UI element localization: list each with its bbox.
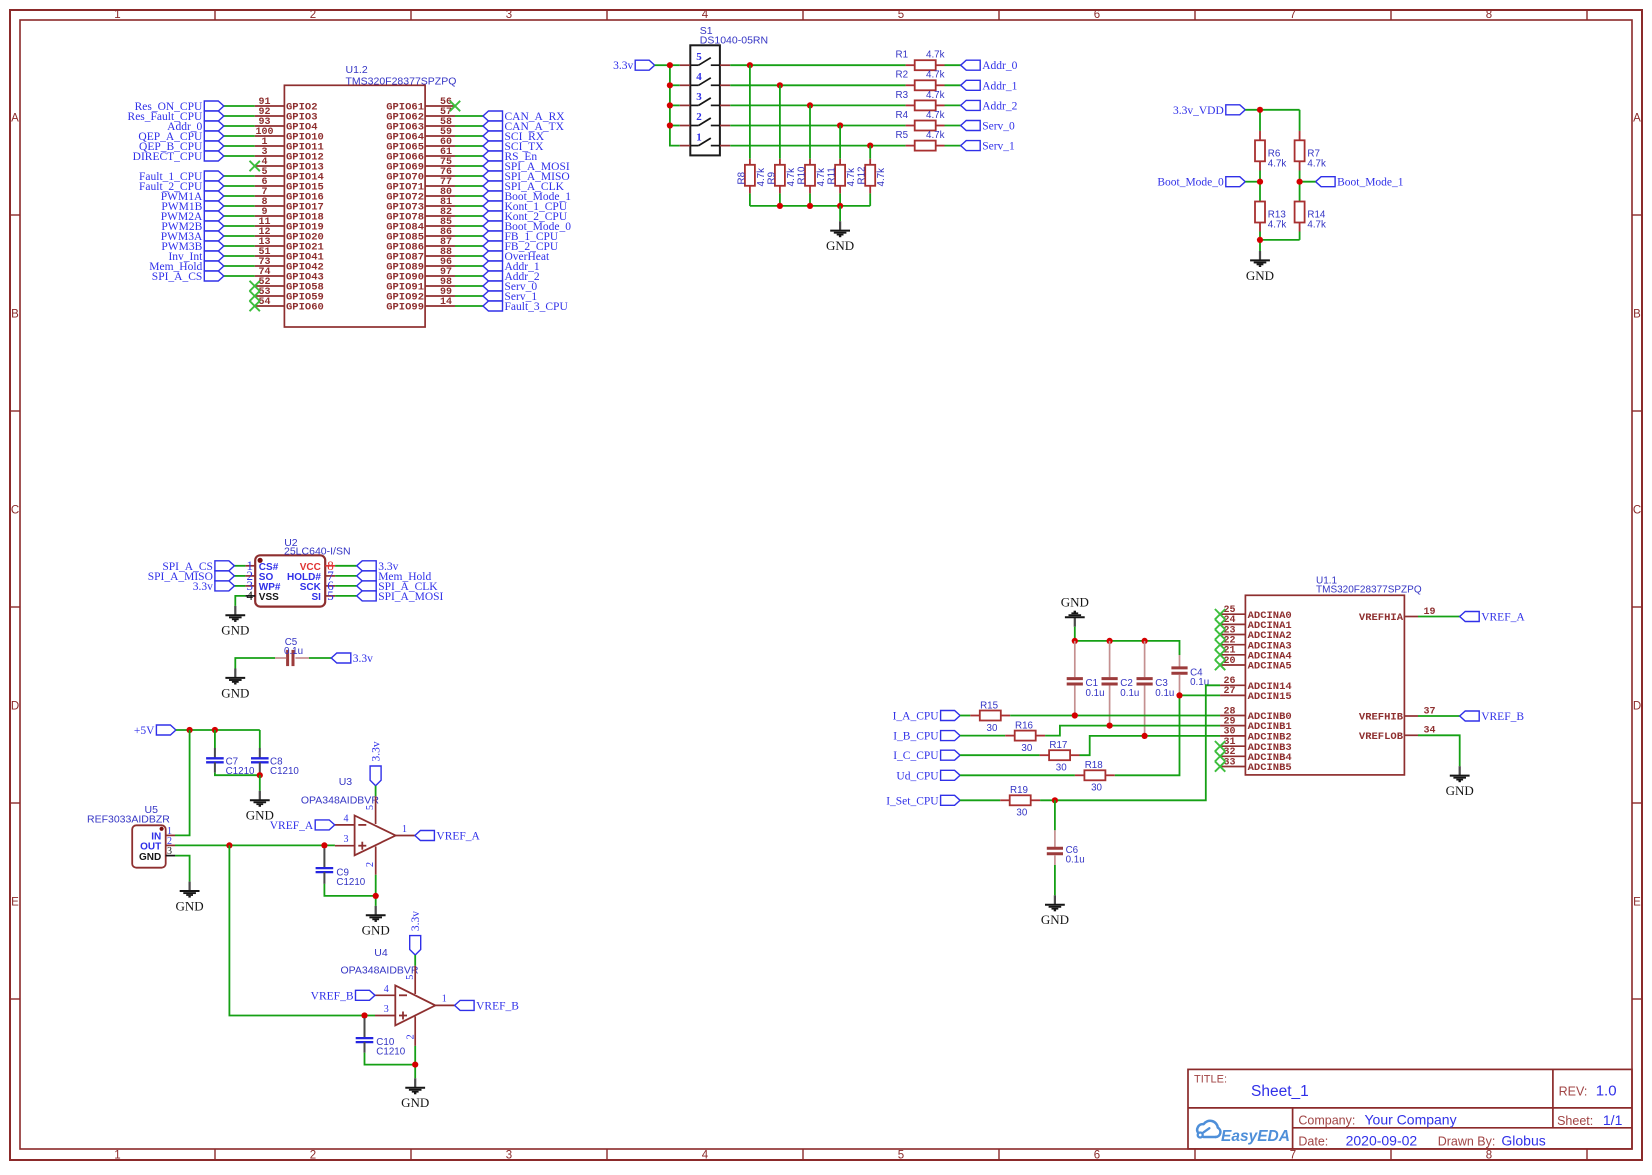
junction [1257, 237, 1263, 243]
net flag FB_1_CPU [483, 231, 503, 241]
svg-text:Sheet:: Sheet: [1557, 1114, 1593, 1128]
net flag SPI_A_MISO [215, 571, 235, 581]
junction [837, 122, 843, 128]
svg-text:VREFLOB: VREFLOB [1359, 731, 1404, 743]
svg-text:Your Company: Your Company [1365, 1111, 1457, 1127]
svg-text:3.3v: 3.3v [410, 911, 422, 931]
wire C5 to 3.3v [309, 657, 331, 659]
net flag I_B_CPU [941, 731, 961, 741]
net flag PWM2A [204, 211, 224, 221]
net flag RS_En [483, 151, 503, 161]
svg-text:B: B [1633, 309, 1641, 321]
wire R19 to ADCIN14 [1040, 685, 1220, 800]
svg-text:SPI_A_CS: SPI_A_CS [152, 271, 203, 283]
resistor R15 30 [970, 715, 980, 717]
net flag VREF_B output [455, 1000, 475, 1010]
svg-text:VREF_A: VREF_A [1481, 612, 1525, 624]
net flag Serv_1 [961, 141, 981, 151]
net flag Addr_2 [961, 100, 981, 110]
net flag SPI_A_CS [204, 271, 224, 281]
svg-text:U1.2: U1.2 [346, 64, 368, 76]
net flag Kont_1_CPU [483, 201, 503, 211]
wire S1 pos 1 to R5 [730, 145, 905, 147]
svg-text:4.7k: 4.7k [876, 168, 887, 187]
wire U2 VSS to ground [235, 596, 245, 606]
svg-text:R1: R1 [896, 50, 909, 61]
wire U1.2 pin 61 to RS_En [455, 155, 483, 157]
svg-text:GND: GND [1246, 268, 1274, 283]
capacitor C3 0.1u [1144, 641, 1146, 677]
wire U1.2 pin 59 to SCI_RX [455, 135, 483, 137]
net flag Ud_CPU [941, 770, 961, 780]
svg-text:30: 30 [1021, 743, 1032, 754]
net flag PWM2B [204, 221, 224, 231]
svg-text:A: A [1633, 113, 1641, 125]
title block [1188, 1069, 1632, 1149]
svg-text:Date:: Date: [1298, 1135, 1328, 1149]
net flag PWM1A [204, 191, 224, 201]
resistor R13 4.7k [1255, 202, 1265, 223]
net flag FB_2_CPU [483, 241, 503, 251]
svg-text:3.3v: 3.3v [371, 741, 383, 761]
wire C7 to C8 bottom rail [215, 773, 260, 776]
wire S1 pos 5 to R1 [730, 64, 905, 66]
net flag SPI_A_CLK [483, 181, 503, 191]
capacitor C7 C1210 [214, 730, 216, 748]
power flag 3.3v_VDD [1226, 105, 1246, 115]
junction [667, 122, 673, 128]
svg-text:1.0: 1.0 [1596, 1083, 1617, 1100]
svg-text:3.3v: 3.3v [353, 653, 373, 665]
svg-text:I_B_CPU: I_B_CPU [893, 731, 939, 743]
wire R11 to ground rail [839, 193, 841, 206]
ground [1054, 895, 1056, 904]
svg-text:4.7k: 4.7k [926, 90, 945, 101]
svg-text:ADCINB5: ADCINB5 [1248, 762, 1292, 774]
svg-text:3: 3 [344, 834, 349, 845]
svg-text:0.1u: 0.1u [1066, 855, 1085, 866]
junction [1107, 723, 1113, 729]
wire to pulldown R9 [779, 85, 781, 159]
op-amp U3 OPA348AIDBVR [355, 816, 396, 856]
wire U2 to Mem_Hold [335, 575, 357, 577]
power flag 3.3v above U4 [410, 936, 421, 955]
wire R10 to ground rail [809, 193, 811, 206]
wire PWM2A to U1.2 pin 9 [224, 215, 255, 217]
svg-text:C1210: C1210 [270, 766, 299, 777]
wire U2 to SPI_A_MOSI [335, 595, 357, 597]
svg-text:4.7k: 4.7k [1307, 220, 1326, 231]
wire I_A_CPU to R15 [960, 715, 970, 717]
power flag 3.3v at C5 [331, 653, 351, 663]
svg-text:OPA348AIDBVR: OPA348AIDBVR [341, 964, 419, 976]
wire Fault_1_CPU to U1.2 pin 5 [224, 175, 255, 177]
wire U1.2 pin 14 to Fault_3_CPU [455, 305, 483, 307]
wire U1.2 pin 85 to Boot_Mode_0 [455, 225, 483, 227]
svg-text:30: 30 [1016, 808, 1027, 819]
svg-text:2: 2 [405, 1034, 416, 1039]
net flag Boot_Mode_0 [483, 221, 503, 231]
svg-text:5: 5 [327, 588, 334, 603]
resistor R16 30 [1005, 735, 1015, 737]
power flag 3.3v above U3 [370, 766, 381, 786]
net flag Addr_2 [483, 271, 503, 281]
wire I_B_CPU to R16 [960, 735, 1005, 737]
wire VREFHIB to VREF_B [1418, 715, 1460, 717]
ground [234, 606, 236, 615]
svg-text:6: 6 [1094, 1149, 1100, 1161]
resistor R11 4.7k [839, 159, 841, 165]
svg-text:C: C [1633, 505, 1641, 517]
svg-text:54: 54 [258, 297, 270, 308]
capacitor C5 0.1u [286, 650, 289, 666]
net flag SPI_A_MOSI [357, 591, 377, 601]
net flag DIRECT_CPU [204, 151, 224, 161]
svg-text:30: 30 [987, 723, 998, 734]
svg-text:R15: R15 [980, 700, 999, 711]
svg-text:27: 27 [1223, 686, 1235, 697]
ground above C1-C4 [1074, 617, 1076, 626]
svg-text:4.7k: 4.7k [846, 168, 857, 187]
ground [414, 1078, 416, 1087]
wire Res_Fault_CPU to U1.2 pin 92 [224, 115, 255, 117]
net flag Inv_Int [204, 251, 224, 261]
resistor R2 4.7k [906, 84, 915, 86]
wire cap top rail [1075, 641, 1180, 655]
svg-text:DIRECT_CPU: DIRECT_CPU [133, 151, 203, 163]
wire 3.3v to U3 pin 5 [375, 786, 377, 797]
svg-text:33: 33 [1223, 757, 1235, 768]
no-connect X U1.1 pin 20 [1215, 660, 1225, 670]
wire C9 to U3 pin 2 / ground [324, 884, 375, 896]
no-connect X U1.1 pin 33 [1215, 761, 1225, 771]
svg-text:REV:: REV: [1559, 1085, 1588, 1099]
wire I_C_CPU to R17 [960, 754, 1040, 756]
svg-text:Addr_0: Addr_0 [982, 60, 1017, 72]
svg-text:7: 7 [1290, 9, 1296, 21]
junction [1142, 733, 1148, 739]
svg-text:4.7k: 4.7k [756, 168, 767, 187]
svg-text:4: 4 [702, 1149, 709, 1161]
svg-text:Addr_1: Addr_1 [982, 80, 1017, 92]
svg-text:2020-09-02: 2020-09-02 [1346, 1133, 1418, 1149]
svg-text:GPIO60: GPIO60 [286, 302, 324, 314]
no-connect X U1.1 pin 24 [1215, 619, 1225, 629]
wire C10 to U4 pin 2 / ground [365, 1053, 416, 1065]
wire C5 to ground [235, 658, 275, 669]
wire to pulldown R10 [809, 105, 811, 158]
wire R3 to Addr_2 [945, 104, 961, 106]
svg-text:ADCIN15: ADCIN15 [1248, 691, 1292, 703]
svg-text:+5V: +5V [134, 725, 155, 737]
net flag Serv_0 [483, 281, 503, 291]
wire PWM2B to U1.2 pin 11 [224, 225, 255, 227]
junction [1072, 712, 1078, 718]
net flag Boot_Mode_1 [483, 191, 503, 201]
svg-text:ADCINA5: ADCINA5 [1248, 661, 1292, 673]
wire to ground under C8 [259, 775, 261, 791]
resistor R7 4.7k [1299, 131, 1301, 140]
junction [777, 82, 783, 88]
junction [777, 203, 783, 209]
junction [667, 62, 673, 68]
svg-text:EasyEDA: EasyEDA [1221, 1128, 1290, 1145]
net flag Serv_0 [961, 121, 981, 131]
resistor R14 4.7k [1295, 202, 1305, 223]
wire R16 to ADCINB1 [1045, 726, 1220, 736]
capacitor C2 0.1u [1109, 641, 1111, 677]
wire PWM3A to U1.2 pin 12 [224, 235, 255, 237]
wire PWM1A to U1.2 pin 7 [224, 195, 255, 197]
svg-text:4: 4 [696, 71, 702, 83]
svg-text:C1210: C1210 [376, 1047, 405, 1058]
wire U1.2 pin 80 to Boot_Mode_1 [455, 195, 483, 197]
wire 3.3v bus to S1 inputs [655, 64, 670, 66]
svg-text:3: 3 [167, 846, 172, 857]
junction [1297, 179, 1303, 185]
junction [257, 772, 263, 778]
svg-text:4.7k: 4.7k [926, 70, 945, 81]
wire PWM1B to U1.2 pin 8 [224, 205, 255, 207]
svg-text:3: 3 [506, 9, 512, 21]
wire SPI_A_CS to U2 [234, 565, 245, 567]
no-connect X U1.1 pin 21 [1215, 650, 1225, 660]
net flag VREF_B input [356, 990, 376, 1000]
net flag 3.3v [215, 581, 235, 591]
wire Boot_Mode_0 node [1245, 181, 1260, 183]
junction [361, 1012, 367, 1018]
svg-text:1: 1 [696, 131, 702, 143]
svg-text:D: D [11, 701, 19, 713]
svg-text:0.1u: 0.1u [284, 646, 303, 657]
wire +5V down to U5 IN [175, 730, 190, 835]
net flag VREF_B [1460, 711, 1480, 721]
svg-text:2: 2 [310, 1149, 316, 1161]
wire C6 to ground [1054, 865, 1056, 895]
svg-text:14: 14 [440, 297, 452, 308]
wire Inv_Int to U1.2 pin 51 [224, 255, 255, 257]
net flag 3.3v [357, 561, 377, 571]
svg-text:R11: R11 [827, 167, 838, 184]
net flag QEP_B_CPU [204, 141, 224, 151]
net flag VREF_A [1460, 612, 1480, 622]
ground [1259, 251, 1261, 260]
svg-text:0.1u: 0.1u [1155, 688, 1174, 699]
svg-text:4.7k: 4.7k [1268, 220, 1287, 231]
svg-text:4: 4 [247, 588, 254, 603]
ground [839, 206, 841, 221]
net flag I_A_CPU [941, 711, 961, 721]
DIP switch S1 DS1040-05RN [690, 45, 720, 155]
svg-text:R8: R8 [736, 171, 747, 184]
wire U1.2 pin 82 to Kont_2_CPU [455, 215, 483, 217]
wire R15 to ADCINB0 [1010, 715, 1220, 717]
resistor R4 4.7k [906, 125, 915, 127]
net flag Serv_1 [483, 291, 503, 301]
svg-text:GPIO99: GPIO99 [386, 302, 424, 314]
svg-text:4.7k: 4.7k [1268, 158, 1287, 169]
net flag VREF_A input [315, 820, 335, 830]
svg-text:REF3033AIDBZR: REF3033AIDBZR [87, 813, 170, 825]
svg-text:SPI_A_MOSI: SPI_A_MOSI [378, 591, 443, 603]
svg-text:1: 1 [114, 9, 120, 21]
wire Addr_0 to U1.2 pin 93 [224, 125, 255, 127]
IC U1.2 TMS320F28377SPZPQ [284, 85, 425, 327]
svg-text:3.3v: 3.3v [193, 581, 213, 593]
no-connect X U1.1 pin 23 [1215, 629, 1225, 639]
svg-text:5: 5 [898, 1149, 904, 1161]
wire S1 pos 4 to R2 [730, 84, 905, 86]
svg-text:GND: GND [1041, 912, 1069, 927]
net flag PWM1B [204, 201, 224, 211]
junction [321, 842, 327, 848]
svg-text:GND: GND [1061, 595, 1089, 610]
wire S1 pos 3 to R3 [730, 104, 905, 106]
wire DIRECT_CPU to U1.2 pin 3 [224, 155, 255, 157]
net flag SPI_A_CS [215, 561, 235, 571]
net flag Addr_1 [961, 80, 981, 90]
net flag Addr_0 [204, 121, 224, 131]
wire to pulldown R12 [869, 146, 871, 159]
IC U5 REF3033AIDBZR [132, 825, 166, 867]
svg-text:Sheet_1: Sheet_1 [1251, 1083, 1309, 1100]
svg-text:SI: SI [311, 592, 321, 603]
svg-text:U3: U3 [339, 776, 353, 788]
no-connect X U1.1 pin 22 [1215, 640, 1225, 650]
wire R8 to ground rail [749, 193, 751, 206]
resistor R10 4.7k [809, 159, 811, 165]
junction [187, 727, 193, 733]
svg-text:Boot_Mode_0: Boot_Mode_0 [1157, 177, 1224, 189]
wire R2 to Addr_1 [945, 84, 961, 86]
net flag SCI_RX [483, 131, 503, 141]
no-connect X U1.1 pin 25 [1215, 609, 1225, 619]
svg-text:4.7k: 4.7k [926, 110, 945, 121]
ground [234, 669, 236, 678]
net flag Boot_Mode_0 [1226, 177, 1246, 187]
wire to pulldown R11 [839, 126, 841, 159]
wire +5V rail [176, 729, 260, 731]
svg-text:Serv_0: Serv_0 [982, 121, 1015, 133]
net flag Fault_2_CPU [204, 181, 224, 191]
junction [667, 102, 673, 108]
svg-text:Fault_3_CPU: Fault_3_CPU [505, 301, 569, 313]
junction [1176, 692, 1182, 698]
wire U1.2 pin 99 to Serv_1 [455, 295, 483, 297]
net flag Kont_2_CPU [483, 211, 503, 221]
wire U1.2 pin 57 to CAN_A_RX [455, 115, 483, 117]
junction [667, 82, 673, 88]
net flag OverHeat [483, 251, 503, 261]
svg-text:VREF_B: VREF_B [311, 990, 354, 1002]
wire U1.2 pin 58 to CAN_A_TX [455, 125, 483, 127]
wire U1.2 pin 77 to SPI_A_CLK [455, 185, 483, 187]
svg-text:VREF_B: VREF_B [1481, 711, 1524, 723]
svg-text:DS1040-05RN: DS1040-05RN [700, 35, 768, 47]
svg-text:C: C [11, 505, 19, 517]
resistor R18 30 [1075, 774, 1085, 776]
wire to pulldown R8 [749, 65, 751, 159]
svg-text:5: 5 [696, 51, 702, 63]
resistor R6 4.7k [1259, 131, 1261, 140]
svg-text:3.3v: 3.3v [613, 60, 633, 72]
svg-text:U4: U4 [374, 947, 388, 959]
svg-text:VREF_A: VREF_A [270, 820, 314, 832]
junction [1072, 638, 1078, 644]
wire R1 to Addr_0 [945, 64, 961, 66]
svg-text:I_C_CPU: I_C_CPU [893, 750, 939, 762]
svg-text:4.7k: 4.7k [926, 50, 945, 61]
wire S1 pos 2 to R4 [730, 125, 905, 127]
svg-text:R18: R18 [1085, 760, 1104, 771]
svg-text:30: 30 [1091, 783, 1102, 794]
svg-text:R3: R3 [896, 90, 909, 101]
wire 3.3v_VDD to R6/R7 [1245, 109, 1299, 111]
svg-text:E: E [1633, 897, 1641, 909]
wire U1.2 pin 96 to Addr_1 [455, 265, 483, 267]
svg-text:2: 2 [696, 111, 702, 123]
wire U1.2 pin 76 to SPI_A_MISO [455, 175, 483, 177]
wire R17 to ADCINB2 [1080, 736, 1221, 755]
op-amp U4 OPA348AIDBVR [395, 985, 435, 1025]
resistor R5 4.7k [906, 145, 915, 147]
resistor R19 30 [1000, 799, 1010, 801]
svg-text:5: 5 [405, 975, 416, 980]
wire 3.3v to U4 pin 5 [414, 955, 416, 966]
svg-text:GND: GND [826, 238, 854, 253]
wire QEP_A_CPU to U1.2 pin 100 [224, 135, 255, 137]
svg-text:4.7k: 4.7k [816, 168, 827, 187]
resistor R3 4.7k [906, 104, 915, 106]
junction [837, 203, 843, 209]
svg-text:R10: R10 [797, 166, 808, 185]
capacitor C6 0.1u [1054, 800, 1056, 830]
capacitor C9 C1210 [323, 848, 325, 868]
no-connect X U1.2 pin 4 [250, 161, 260, 171]
IC U1.1 TMS320F28377SPZPQ [1245, 595, 1404, 775]
wire R9 to ground rail [779, 193, 781, 206]
power flag 3.3v at S1 [635, 60, 655, 70]
svg-text:GND: GND [401, 1095, 429, 1110]
capacitor C1 0.1u [1074, 641, 1076, 677]
svg-text:TITLE:: TITLE: [1194, 1074, 1227, 1086]
junction [1257, 107, 1263, 113]
no-connect X U1.2 pin 53 [250, 291, 260, 301]
wire U1.2 pin 88 to OverHeat [455, 255, 483, 257]
svg-text:Addr_2: Addr_2 [982, 100, 1017, 112]
capacitor C8 C1210 [259, 730, 261, 748]
net flag SPI_A_MOSI [483, 161, 503, 171]
wire U5 OUT to U4 + input [229, 845, 375, 1015]
no-connect X U1.2 pin 52 [250, 281, 260, 291]
net flag Addr_1 [483, 261, 503, 271]
svg-text:7: 7 [1290, 1149, 1296, 1161]
svg-text:R9: R9 [766, 172, 777, 185]
wire Res_ON_CPU to U1.2 pin 91 [224, 105, 255, 107]
junction [747, 62, 753, 68]
wire QEP_B_CPU to U1.2 pin 1 [224, 145, 255, 147]
capacitor C4 0.1u [1179, 655, 1181, 667]
svg-text:4.7k: 4.7k [1307, 158, 1326, 169]
svg-text:R12: R12 [857, 167, 868, 185]
svg-text:I_A_CPU: I_A_CPU [893, 711, 940, 723]
svg-text:2: 2 [310, 9, 316, 21]
svg-text:8: 8 [1486, 1149, 1492, 1161]
svg-text:3: 3 [696, 91, 702, 103]
svg-text:0.1u: 0.1u [1086, 688, 1105, 699]
no-connect X U1.2 pin 54 [250, 301, 260, 311]
svg-text:20: 20 [1223, 656, 1235, 667]
